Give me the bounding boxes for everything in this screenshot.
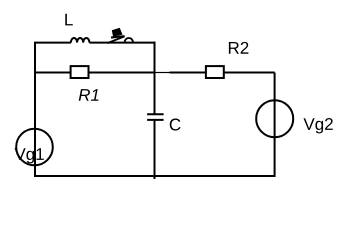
label Vg2 [303,118,332,133]
label Vg1 [14,148,43,163]
label C [170,119,181,131]
wire top right segment [89,42,155,44]
switch S1 handle [112,28,123,37]
capacitor C plates [147,113,164,115]
source Vg1 [16,129,53,166]
switch S1 contact arc [125,38,134,43]
resistor R1 [71,66,89,78]
label L [65,14,73,26]
inductor L [71,38,90,43]
label R2 [229,42,248,54]
resistor R2 [206,66,224,78]
wire thin segment after node [155,72,170,74]
wire middle rail lower [154,120,156,179]
wire top left segment [34,42,71,44]
wire R2 row [170,72,275,74]
switch S1 lever [107,36,124,43]
source Vg2 [256,100,293,137]
wire middle rail upper [154,42,156,114]
wire left rail, bottom wire, right rail [35,43,275,176]
wire R1 row [35,72,155,74]
label R1 [79,89,99,101]
